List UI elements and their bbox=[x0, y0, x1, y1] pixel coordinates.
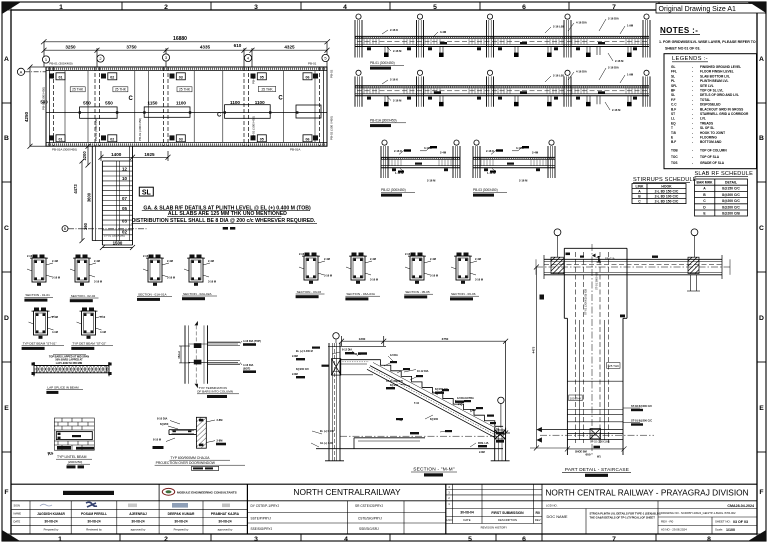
officer designations bbox=[251, 504, 384, 531]
svg-text:-: - bbox=[692, 136, 693, 140]
svg-text:2-16 K: 2-16 K bbox=[486, 149, 494, 153]
svg-text:3600: 3600 bbox=[87, 192, 92, 202]
stirrups schedule table bbox=[632, 184, 686, 204]
doc name area grid bbox=[542, 501, 757, 534]
svg-text:T: T bbox=[671, 126, 673, 130]
svg-text:5: 5 bbox=[433, 4, 437, 11]
svg-text:OF BARS INTO COLUMN: OF BARS INTO COLUMN bbox=[197, 390, 233, 394]
svg-text:3-16 M: 3-16 M bbox=[94, 280, 102, 284]
svg-text:2-16 K: 2-16 K bbox=[27, 254, 35, 258]
part detail bottom x box bbox=[590, 429, 601, 439]
PB-03 bubbles bbox=[474, 140, 554, 145]
svg-text:4-10: 4-10 bbox=[100, 315, 106, 319]
svg-text:2-4M: 2-4M bbox=[532, 151, 539, 155]
svg-text:8@200 C/C: 8@200 C/C bbox=[722, 199, 740, 203]
svg-text:T.B: T.B bbox=[671, 131, 676, 135]
svg-text:1. FOR GRIDWISE/LVL WISE LAYE: 1. FOR GRIDWISE/LVL WISE LAYER, PLEASE R… bbox=[659, 40, 756, 44]
svg-text:-: - bbox=[692, 107, 693, 111]
svg-text:FFL: FFL bbox=[671, 70, 677, 74]
svg-text:8-12 DIA: 8-12 DIA bbox=[342, 349, 352, 352]
svg-text:03: 03 bbox=[179, 75, 183, 79]
svg-text:3: 3 bbox=[254, 536, 258, 543]
section 06-06 bbox=[450, 253, 483, 301]
svg-text:2-16 DIA: 2-16 DIA bbox=[608, 17, 619, 21]
consultant logo ellipse bbox=[162, 488, 236, 495]
svg-text:30-08-04: 30-08-04 bbox=[460, 511, 474, 515]
svg-text:SL: SL bbox=[142, 190, 152, 197]
svg-text:D: D bbox=[759, 315, 764, 322]
bottom band numbers bbox=[58, 536, 711, 543]
PB-01A stirrup blobs bbox=[367, 91, 637, 99]
mid beam boxes bbox=[80, 105, 321, 119]
svg-text:PB-01A (300X450): PB-01A (300X450) bbox=[52, 148, 77, 152]
rotated beam labels bbox=[42, 69, 334, 141]
svg-text:3750: 3750 bbox=[442, 337, 449, 341]
svg-text:PB-03 (300X450): PB-03 (300X450) bbox=[94, 118, 98, 141]
svg-text:PB-01 (300X450): PB-01 (300X450) bbox=[370, 61, 395, 65]
svg-text:10: 10 bbox=[122, 176, 127, 181]
svg-text:CSTE/SIG/PRYJ: CSTE/SIG/PRYJ bbox=[358, 517, 382, 521]
svg-text:2-4M: 2-4M bbox=[475, 257, 481, 261]
svg-text:SR CSTE/CS/PRYJ: SR CSTE/CS/PRYJ bbox=[355, 504, 384, 508]
left band ticks bbox=[2, 103, 11, 452]
part detail corner blobs bbox=[566, 253, 659, 318]
plan slab outline bbox=[46, 67, 327, 146]
svg-text:DISPOSELED: DISPOSELED bbox=[700, 103, 721, 107]
svg-text:4: 4 bbox=[343, 4, 347, 11]
svg-text:NAME: NAME bbox=[14, 512, 22, 516]
svg-text:EL (+) 0.400 M: EL (+) 0.400 M bbox=[296, 350, 313, 353]
left vertical dim 4250 bbox=[28, 65, 47, 149]
svg-text:PB-03 (300X450): PB-03 (300X450) bbox=[138, 118, 142, 141]
section 03A-03A bbox=[345, 253, 380, 301]
svg-text:E: E bbox=[759, 405, 764, 412]
svg-text:3750: 3750 bbox=[126, 45, 137, 50]
svg-text:06: 06 bbox=[306, 75, 310, 79]
svg-text:8@200: 8@200 bbox=[430, 418, 439, 421]
beam PB-03 elevation bbox=[473, 146, 555, 178]
svg-text:8: 8 bbox=[707, 536, 711, 543]
bottom band ticks bbox=[120, 534, 656, 541]
svg-text:FINISHED GROUND LEVEL: FINISHED GROUND LEVEL bbox=[700, 65, 741, 69]
svg-text:01: 01 bbox=[59, 75, 63, 79]
signature row labels bbox=[14, 504, 22, 524]
svg-text:30-08-24: 30-08-24 bbox=[44, 520, 57, 524]
svg-text:1150: 1150 bbox=[148, 101, 158, 106]
svg-text:1: 1 bbox=[596, 255, 602, 266]
svg-text:LAP LENGTH 45D MIN: LAP LENGTH 45D MIN bbox=[56, 362, 83, 365]
svg-text:CMA28-04-2024: CMA28-04-2024 bbox=[727, 504, 754, 508]
svg-text:-: - bbox=[692, 79, 693, 83]
svg-text:-: - bbox=[692, 140, 693, 144]
svg-text:B: B bbox=[4, 135, 9, 142]
redacted company name bar bbox=[63, 491, 114, 495]
GA note line 1 bbox=[132, 205, 318, 224]
svg-text:SSE/SIG/PRYJ: SSE/SIG/PRYJ bbox=[251, 527, 273, 531]
svg-text:4335: 4335 bbox=[200, 45, 211, 50]
PB-03 callouts bbox=[486, 146, 539, 183]
svg-text:Prepared by: Prepared by bbox=[174, 528, 189, 532]
svg-text:05: 05 bbox=[260, 75, 264, 79]
svg-text:DRAWING NO - NCR/PRYJ/2024_GE: DRAWING NO - NCR/PRYJ/2024_GEN/TP-1-BLDG… bbox=[661, 511, 736, 515]
svg-text:ST-01 3600 GB: ST-01 3600 GB bbox=[595, 272, 599, 290]
svg-text:JAGDISH KUMAR: JAGDISH KUMAR bbox=[37, 512, 65, 516]
svg-text:TOC: TOC bbox=[671, 155, 678, 159]
svg-text:C.C: C.C bbox=[671, 103, 677, 107]
svg-text:ST-01 (WAIST): ST-01 (WAIST) bbox=[386, 380, 403, 383]
svg-text:4325: 4325 bbox=[284, 45, 295, 50]
stirrups schedule title bbox=[633, 177, 697, 183]
M-M step callout bars bbox=[312, 347, 504, 443]
svg-text:2-L 8D 150 C/C: 2-L 8D 150 C/C bbox=[655, 199, 679, 203]
svg-text:2-4M: 2-4M bbox=[94, 259, 100, 263]
mid beam line bbox=[46, 112, 327, 114]
svg-text:2: 2 bbox=[164, 536, 168, 543]
stair left dims bbox=[80, 144, 93, 243]
svg-text:SFL: SFL bbox=[671, 84, 677, 88]
svg-text:TOP OF COLUMN: TOP OF COLUMN bbox=[700, 149, 727, 153]
svg-text:Prepared by: Prepared by bbox=[44, 528, 59, 532]
section 02A-02A bbox=[182, 255, 217, 301]
svg-text:8@200 C/C: 8@200 C/C bbox=[722, 193, 740, 197]
svg-text:2-16 L08: 2-16 L08 bbox=[553, 74, 564, 78]
svg-text:01: 01 bbox=[59, 137, 63, 141]
svg-text:D: D bbox=[4, 315, 9, 322]
PB-01 columns bbox=[355, 20, 650, 58]
svg-text:F.F: F.F bbox=[671, 98, 675, 102]
M-M callouts bbox=[292, 349, 490, 455]
svg-text:SECTION - 01-01: SECTION - 01-01 bbox=[25, 293, 50, 297]
PB-02 callouts bbox=[394, 146, 447, 183]
svg-text:DATE: DATE bbox=[14, 519, 21, 523]
stair bottom dim 1500 bbox=[100, 238, 135, 250]
slab rf schedule title bbox=[695, 171, 754, 177]
svg-text:POSAM PERSLL: POSAM PERSLL bbox=[81, 512, 107, 516]
notes heading bbox=[660, 26, 700, 35]
svg-text:-: - bbox=[692, 84, 693, 88]
corner triangle top-left bbox=[2, 2, 21, 14]
svg-text:ST-02 8@200 C/C: ST-02 8@200 C/C bbox=[631, 404, 652, 408]
svg-text:2-16 M: 2-16 M bbox=[612, 108, 621, 112]
PB-01 column bubbles bbox=[356, 14, 649, 19]
svg-text:8@200: 8@200 bbox=[390, 384, 399, 387]
svg-text:MODULE ENGINEERING CONSULTANTS: MODULE ENGINEERING CONSULTANTS bbox=[177, 491, 237, 495]
PB-01A columns bbox=[355, 76, 650, 106]
svg-text:1100: 1100 bbox=[255, 100, 265, 105]
slab edge hatch bottom bbox=[46, 143, 327, 145]
svg-text:FIRST SUBMISSION: FIRST SUBMISSION bbox=[491, 511, 524, 515]
svg-text:2-8M: 2-8M bbox=[217, 418, 223, 422]
section 02-02 bbox=[70, 255, 102, 303]
svg-text:4473: 4473 bbox=[532, 346, 536, 353]
svg-text:2-16 L08: 2-16 L08 bbox=[553, 25, 564, 29]
svg-text:FDN. LVL: FDN. LVL bbox=[478, 442, 490, 445]
PB-01 hanger stubs bbox=[548, 47, 631, 54]
svg-text:SHOE BM: SHOE BM bbox=[575, 451, 587, 454]
svg-text:PB-01 (300X400): PB-01 (300X400) bbox=[49, 62, 72, 66]
svg-text:8-10 DIA: 8-10 DIA bbox=[157, 417, 168, 421]
svg-text:2-16 K: 2-16 K bbox=[390, 28, 398, 32]
svg-text:2-16 K: 2-16 K bbox=[390, 78, 398, 82]
grid bubble row A left bbox=[17, 68, 46, 75]
PB-02 bubbles bbox=[382, 140, 459, 145]
svg-text:REVISION HISTORY: REVISION HISTORY bbox=[481, 526, 508, 530]
svg-text:PB-02: PB-02 bbox=[330, 69, 334, 78]
PB-01A stirrup ticks bbox=[364, 88, 641, 94]
column symbols top row bbox=[49, 73, 318, 80]
svg-text:ST-01 (300X160) GB: ST-01 (300X160) GB bbox=[584, 289, 588, 315]
revision table bbox=[446, 484, 542, 523]
svg-text:6: 6 bbox=[522, 4, 526, 11]
M-M waist slab lines bbox=[367, 363, 499, 438]
part detail bottom dim bbox=[565, 446, 627, 451]
svg-text:(200X250): (200X250) bbox=[68, 460, 82, 464]
svg-text:Original Drawing Size A1: Original Drawing Size A1 bbox=[659, 6, 737, 13]
svg-text:B: B bbox=[759, 135, 764, 142]
svg-text:THE GA&R DETAILS OF TP-1 (TYPI: THE GA&R DETAILS OF TP-1 (TYPICAL) OF SH… bbox=[590, 516, 656, 520]
svg-text:STAIRWELL GRID A CORRIDOR: STAIRWELL GRID A CORRIDOR bbox=[700, 112, 749, 116]
svg-text:E: E bbox=[4, 405, 9, 412]
M-M right dim line bbox=[500, 341, 510, 435]
column symbols bottom row bbox=[49, 135, 318, 142]
svg-text:A: A bbox=[759, 56, 764, 63]
part detail top beam bbox=[536, 255, 730, 279]
svg-text:12 DIA EXTRA: 12 DIA EXTRA bbox=[457, 397, 474, 400]
svg-text:6: 6 bbox=[522, 536, 526, 543]
PB-01 callouts bbox=[390, 17, 634, 64]
svg-text:-: - bbox=[692, 98, 693, 102]
plan bay dim line bbox=[42, 42, 330, 67]
svg-text:7: 7 bbox=[612, 536, 616, 543]
svg-text:F: F bbox=[759, 489, 763, 496]
svg-text:2-8M: 2-8M bbox=[217, 439, 223, 443]
svg-text:PB-02 (300X450): PB-02 (300X450) bbox=[381, 188, 406, 192]
svg-text:45xLd: 45xLd bbox=[177, 351, 181, 359]
svg-text:1-9M: 1-9M bbox=[627, 24, 634, 28]
part detail left arrows bbox=[536, 295, 544, 443]
svg-text:2-4M: 2-4M bbox=[52, 315, 58, 319]
svg-text:-: - bbox=[692, 70, 693, 74]
corner triangle bottom-left bbox=[2, 530, 20, 541]
svg-text:1200: 1200 bbox=[359, 337, 366, 341]
M-M top bubble bbox=[333, 333, 339, 343]
svg-text:SECTION - 06-06: SECTION - 06-06 bbox=[451, 292, 476, 296]
svg-text:TYP DET BEAM "ST-02": TYP DET BEAM "ST-02" bbox=[72, 342, 106, 346]
M-M right column bbox=[491, 428, 510, 461]
svg-text:7: 7 bbox=[612, 4, 616, 11]
svg-text:SL OF SL: SL OF SL bbox=[700, 126, 714, 130]
M-M stair steps bbox=[370, 360, 503, 427]
plan intersection dots bbox=[79, 111, 299, 113]
svg-text:ST-01 (300X160): ST-01 (300X160) bbox=[104, 234, 125, 238]
right band letters bbox=[759, 56, 764, 496]
svg-text:PART DETAIL - STAIRCASE: PART DETAIL - STAIRCASE bbox=[565, 467, 629, 472]
PB-01A hanger stubs bbox=[548, 96, 631, 103]
svg-text:2-L 8D 150 C/C: 2-L 8D 150 C/C bbox=[655, 189, 679, 193]
svg-text:16880: 16880 bbox=[173, 36, 187, 42]
svg-text:C: C bbox=[217, 113, 222, 119]
svg-text:1100: 1100 bbox=[230, 100, 240, 105]
svg-text:07: 07 bbox=[122, 196, 127, 201]
svg-text:3-16 M: 3-16 M bbox=[475, 278, 483, 282]
svg-text:SECTION - 02A-02A: SECTION - 02A-02A bbox=[183, 292, 212, 296]
svg-text:30-08-24: 30-08-24 bbox=[218, 520, 231, 524]
svg-text:25 THK: 25 THK bbox=[72, 88, 84, 92]
svg-text:1500: 1500 bbox=[113, 241, 123, 246]
svg-text:SECTION - 02-02: SECTION - 02-02 bbox=[71, 294, 96, 298]
svg-text:2-4M: 2-4M bbox=[167, 259, 173, 263]
svg-text:SSE/SIG/SRJ: SSE/SIG/SRJ bbox=[359, 527, 379, 531]
svg-text:LGD NO.: LGD NO. bbox=[546, 503, 558, 507]
svg-text:1: 1 bbox=[58, 536, 62, 543]
M-M ground line bbox=[316, 436, 503, 449]
beam PB-02 elevation bbox=[381, 146, 460, 178]
svg-text:A: A bbox=[4, 56, 9, 63]
svg-text:C: C bbox=[759, 225, 764, 232]
svg-text:550: 550 bbox=[105, 101, 113, 106]
signature names bbox=[37, 512, 240, 516]
svg-text:06: 06 bbox=[306, 137, 310, 141]
note 1 text bbox=[659, 40, 756, 51]
svg-text:3-16 M: 3-16 M bbox=[430, 274, 438, 278]
svg-text:25 THK: 25 THK bbox=[115, 88, 127, 92]
svg-text:PB-02 (300 X450): PB-02 (300 X450) bbox=[330, 116, 334, 140]
svg-text:2-16 K: 2-16 K bbox=[394, 149, 402, 153]
svg-text:5: 5 bbox=[468, 536, 472, 543]
M-M title bbox=[411, 467, 457, 477]
svg-text:1400: 1400 bbox=[111, 152, 122, 157]
svg-text:30-08-24: 30-08-24 bbox=[131, 520, 144, 524]
svg-text:4-16 DIA (TOP): 4-16 DIA (TOP) bbox=[243, 339, 261, 343]
svg-text:2-8M: 2-8M bbox=[292, 373, 298, 376]
svg-text:LL: LL bbox=[671, 117, 675, 121]
legends title bbox=[672, 56, 708, 62]
PB-02 label bbox=[381, 188, 415, 197]
svg-text:2-16 K: 2-16 K bbox=[405, 252, 413, 256]
legends rows bbox=[671, 65, 749, 165]
svg-text:TYP DET BEAM "ST-01": TYP DET BEAM "ST-01" bbox=[23, 342, 57, 346]
svg-text:B.F: B.F bbox=[671, 107, 676, 111]
svg-text:A3 NO - 29.08.2024: A3 NO - 29.08.2024 bbox=[661, 528, 687, 532]
svg-text:4-16 DIA: 4-16 DIA bbox=[576, 21, 587, 25]
section cut C marks bbox=[129, 96, 284, 119]
svg-text:05: 05 bbox=[260, 137, 264, 141]
part detail bubbles bbox=[554, 229, 698, 257]
section 05-05 bbox=[404, 252, 438, 298]
M-M column head x-brace bbox=[332, 359, 341, 376]
stair dim 1400 1925 bbox=[99, 151, 171, 161]
lap splice in beam bbox=[32, 355, 112, 394]
svg-text:3-16 M: 3-16 M bbox=[370, 278, 378, 282]
svg-text:PROJECTION OVER DOOR/WINDOW: PROJECTION OVER DOOR/WINDOW bbox=[156, 461, 216, 465]
svg-text:(BOT): (BOT) bbox=[243, 366, 250, 370]
svg-text:03: 03 bbox=[122, 218, 127, 223]
svg-text:2-16 DIA: 2-16 DIA bbox=[608, 66, 619, 70]
svg-text:DOC NAME: DOC NAME bbox=[547, 514, 568, 519]
section 01A-01A bbox=[137, 254, 175, 301]
svg-text:TOP OF SL LVL: TOP OF SL LVL bbox=[700, 89, 723, 93]
svg-text:-: - bbox=[692, 103, 693, 107]
secondary beam lines bbox=[65, 71, 315, 142]
svg-text:-: - bbox=[692, 65, 693, 69]
svg-text:1100: 1100 bbox=[176, 101, 186, 106]
svg-text:DY CSTE/P-1/PRYJ: DY CSTE/P-1/PRYJ bbox=[251, 504, 280, 508]
svg-text:550: 550 bbox=[83, 101, 91, 106]
svg-text:B.F: B.F bbox=[671, 140, 676, 144]
svg-text:E: E bbox=[671, 136, 673, 140]
svg-text:02: 02 bbox=[110, 137, 114, 141]
svg-text:-: - bbox=[692, 149, 693, 153]
svg-text:3: 3 bbox=[254, 4, 258, 11]
svg-text:SLAB BOTTOM LVL: SLAB BOTTOM LVL bbox=[700, 74, 730, 78]
svg-text:PB-02 (300X450): PB-02 (300X450) bbox=[42, 87, 46, 110]
svg-text:1-9M: 1-9M bbox=[627, 73, 634, 77]
svg-text:LVL: LVL bbox=[700, 117, 706, 121]
stair stringer lines bbox=[117, 161, 120, 241]
part detail flight strip bbox=[564, 244, 627, 455]
typ termination of bars into column bbox=[177, 321, 261, 398]
svg-text:ST-02 (300X160): ST-02 (300X160) bbox=[590, 440, 610, 444]
svg-text:W1: W1 bbox=[597, 456, 601, 459]
svg-text:1925: 1925 bbox=[144, 152, 155, 157]
svg-text:-: - bbox=[692, 155, 693, 159]
PB-01A label bbox=[370, 119, 406, 128]
svg-text:-: - bbox=[692, 121, 693, 125]
svg-text:05: 05 bbox=[122, 206, 127, 211]
svg-text:4-16 DIA: 4-16 DIA bbox=[243, 363, 254, 367]
svg-text:DISTRIBUTION STEEL SHALL BE 8: DISTRIBUTION STEEL SHALL BE 8 DIA @ 200 … bbox=[132, 218, 316, 224]
stair well walls bbox=[92, 146, 132, 245]
svg-text:BOTTOM AND: BOTTOM AND bbox=[700, 140, 722, 144]
section M-M left column bbox=[325, 343, 344, 461]
svg-text:FLOOR FINISH LEVEL: FLOOR FINISH LEVEL bbox=[700, 70, 734, 74]
middle officer grid bbox=[247, 501, 445, 534]
svg-text:-: - bbox=[692, 126, 693, 130]
section 03-03 bbox=[296, 252, 332, 298]
svg-text:PL: PL bbox=[671, 79, 675, 83]
title block left signature grid bbox=[11, 501, 247, 534]
svg-text:LEGENDS :-: LEGENDS :- bbox=[672, 56, 708, 62]
part detail title bbox=[562, 467, 631, 477]
part detail 125 THK box bbox=[607, 363, 620, 369]
title block frame bbox=[11, 484, 757, 534]
svg-text:-: - bbox=[692, 117, 693, 121]
svg-text:4: 4 bbox=[344, 536, 348, 543]
svg-text:-: - bbox=[692, 131, 693, 135]
typ det beam ST-01 bbox=[22, 308, 64, 350]
typ det beam ST-02 bbox=[71, 308, 113, 350]
svg-text:2-16 M: 2-16 M bbox=[615, 59, 624, 63]
svg-text:EQ: EQ bbox=[671, 121, 676, 125]
svg-text:2-4M: 2-4M bbox=[52, 259, 58, 263]
plan overall dim line 16880 bbox=[41, 39, 330, 44]
svg-text:8@200 C/C: 8@200 C/C bbox=[296, 368, 309, 371]
beam PB-01 elevation bbox=[355, 36, 649, 46]
svg-text:LINK: LINK bbox=[636, 184, 644, 188]
svg-text:2-16 K: 2-16 K bbox=[299, 252, 307, 256]
top band ticks bbox=[122, 2, 659, 10]
svg-text:SECTION - 03-03: SECTION - 03-03 bbox=[297, 290, 322, 294]
description cell bbox=[590, 512, 661, 520]
svg-text:PB-03 (300X450): PB-03 (300X450) bbox=[473, 188, 498, 192]
svg-text:TOB: TOB bbox=[671, 149, 678, 153]
original drawing size box bbox=[656, 4, 766, 14]
svg-text:10-12 DIA: 10-12 DIA bbox=[417, 370, 429, 373]
svg-text:8@200: 8@200 bbox=[160, 422, 169, 426]
column grid dashed lines bbox=[54, 67, 320, 146]
svg-text:R0: R0 bbox=[536, 511, 540, 515]
svg-text:REV: REV bbox=[535, 518, 541, 522]
